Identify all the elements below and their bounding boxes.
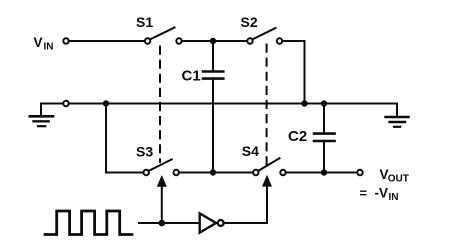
arrow to S3	[157, 175, 167, 223]
ground right	[386, 104, 409, 127]
ground rail wire	[41, 103, 397, 105]
svg-text:S3: S3	[136, 144, 153, 160]
node clock branch	[159, 220, 166, 227]
label VIN	[34, 35, 54, 53]
switch S2	[247, 28, 282, 44]
svg-text:=: =	[360, 186, 368, 201]
capacitor C2	[314, 104, 335, 173]
wire S4 to VOUT	[286, 172, 358, 174]
wire inverter to S4 arrow	[225, 222, 267, 224]
label equals minus VIN	[360, 186, 399, 204]
svg-text:-V: -V	[375, 186, 389, 201]
svg-text:IN: IN	[389, 192, 399, 203]
dashed link S2-S4	[266, 45, 268, 165]
node C1 bottom	[210, 169, 216, 175]
arrow to S4	[262, 175, 272, 223]
terminal VOUT	[357, 170, 362, 175]
svg-text:S4: S4	[242, 143, 259, 159]
svg-text:C2: C2	[288, 128, 307, 145]
node rail to S3	[103, 100, 109, 106]
wire VIN to S1	[69, 40, 145, 42]
node C1 top	[210, 38, 216, 44]
node S2 rail	[301, 100, 307, 106]
svg-text:V: V	[34, 35, 43, 50]
node C2 bottom	[321, 169, 327, 175]
inverter U1	[200, 213, 224, 232]
wire S2 to ground rail	[282, 41, 304, 104]
dashed link S1-S3	[159, 47, 161, 163]
svg-text:S1: S1	[136, 14, 153, 30]
node C2 top	[321, 100, 327, 106]
switch S3	[144, 159, 179, 175]
wire S1 to S2	[182, 40, 248, 42]
switch S1	[145, 28, 182, 44]
ground left	[30, 104, 53, 127]
svg-text:C1: C1	[182, 68, 201, 85]
terminal ground input	[63, 101, 68, 106]
svg-text:IN: IN	[44, 42, 54, 53]
switch S4	[253, 158, 286, 175]
capacitor C1	[203, 41, 223, 173]
wire S3 to S4	[179, 172, 253, 174]
terminal VIN	[63, 38, 68, 43]
label VOUT	[380, 167, 409, 185]
wire clock to inverter	[139, 222, 199, 224]
svg-text:S2: S2	[241, 14, 258, 30]
clock waveform	[45, 211, 132, 235]
wire rail down to S3	[106, 104, 143, 173]
svg-text:OUT: OUT	[388, 174, 409, 185]
